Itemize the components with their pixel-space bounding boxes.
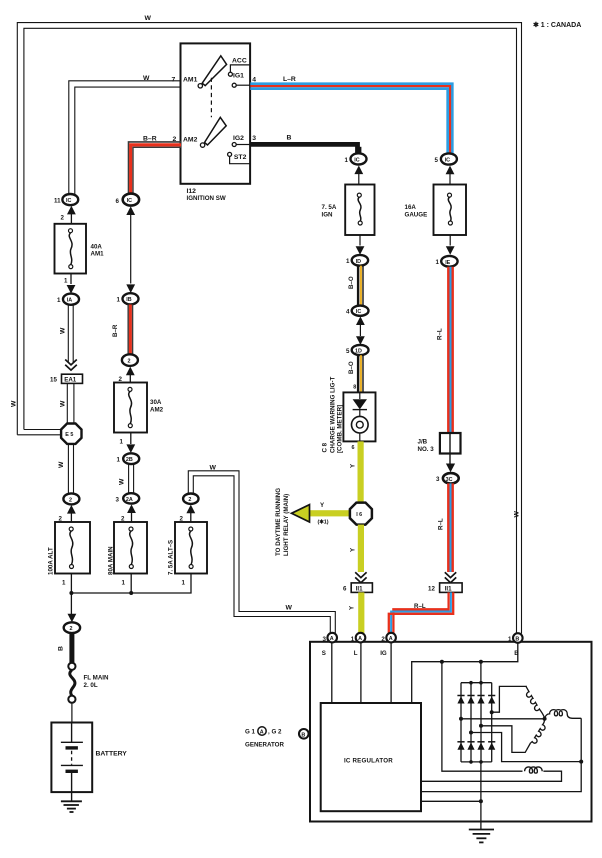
svg-text:1: 1 xyxy=(120,439,124,446)
svg-text:W: W xyxy=(119,478,126,485)
svg-text:W: W xyxy=(58,461,65,468)
generator box xyxy=(310,642,592,822)
svg-text:B–R: B–R xyxy=(143,135,157,142)
svg-text:AM1: AM1 xyxy=(183,76,198,83)
wire rectifier center to ground xyxy=(480,762,482,830)
diode bottom row col3 xyxy=(477,741,484,743)
svg-text:IG: IG xyxy=(380,650,387,657)
connector 5 1D oval xyxy=(352,345,369,355)
rectifier bottom rail xyxy=(461,761,492,763)
battery box xyxy=(51,723,92,793)
svg-text:1: 1 xyxy=(117,457,121,464)
wire B thick from IG2 pin 3 to connector 1 IC xyxy=(250,144,357,153)
svg-text:2: 2 xyxy=(70,626,73,632)
arrow up below 4 IC xyxy=(356,316,365,325)
double chevron into 12 II1 xyxy=(445,572,456,582)
connector 2 oval above 100A ALT xyxy=(63,493,79,504)
svg-text:AM2: AM2 xyxy=(183,137,198,144)
svg-text:GENERATOR: GENERATOR xyxy=(245,742,284,749)
arrow down into 1 IE xyxy=(446,246,455,255)
svg-text:1: 1 xyxy=(436,259,440,266)
svg-text:15: 15 xyxy=(50,377,57,384)
diode top row col2 xyxy=(467,695,474,697)
svg-text:5: 5 xyxy=(346,348,350,355)
svg-text:40A: 40A xyxy=(91,244,103,251)
svg-text:6: 6 xyxy=(116,198,120,205)
connector 1 ID oval xyxy=(352,255,368,266)
svg-text:6: 6 xyxy=(343,586,347,593)
wire rotor coil right end to IC regulator xyxy=(421,771,562,781)
junction connector E5 octagon xyxy=(61,424,81,444)
svg-text:B–O: B–O xyxy=(348,276,355,289)
connector 6 IC oval xyxy=(123,194,139,206)
svg-text:1: 1 xyxy=(508,636,512,643)
stator coil phase 2 xyxy=(531,718,546,743)
svg-text:B: B xyxy=(58,646,65,651)
diode symbol in C8 xyxy=(359,392,361,399)
rectifier column 2 xyxy=(470,683,472,762)
svg-text:30A: 30A xyxy=(150,399,162,406)
svg-text:B: B xyxy=(515,637,519,643)
svg-text:2B: 2B xyxy=(126,457,133,463)
battery cell 2 positive plate xyxy=(61,764,83,766)
terminal 1 A (L) xyxy=(356,633,366,643)
svg-text:BATTERY: BATTERY xyxy=(96,751,128,758)
wire B-R from 1 IB to connector 2 xyxy=(127,305,129,355)
svg-text:L–R: L–R xyxy=(283,76,296,83)
svg-text:TO DAYTIME RUNNING: TO DAYTIME RUNNING xyxy=(275,488,282,556)
svg-text:1: 1 xyxy=(117,297,121,304)
wire stator phase 3 end down to IC regulator sense xyxy=(421,718,581,791)
svg-text:C 8: C 8 xyxy=(322,442,329,452)
svg-text:2: 2 xyxy=(61,215,65,222)
AM2 contact circle xyxy=(200,143,204,147)
connector 1 IC oval IGN feed xyxy=(351,153,367,164)
connector 1 IA oval xyxy=(63,294,79,305)
svg-text:2. 0L: 2. 0L xyxy=(84,682,98,689)
dashed mechanical link between wipers xyxy=(210,78,212,118)
wire B-O from 5 1D to charge warning light xyxy=(357,355,359,392)
svg-text:1D: 1D xyxy=(355,349,362,355)
svg-text:2: 2 xyxy=(128,359,131,365)
wire Y from 6 II1 to generator L terminal xyxy=(358,592,364,633)
rectifier column 4 xyxy=(491,683,493,762)
svg-text:ACC: ACC xyxy=(232,57,247,64)
wire Y from C8 to junction I6 xyxy=(358,441,364,503)
arrow head to daytime running light relay xyxy=(292,505,310,522)
svg-text:4: 4 xyxy=(252,76,256,83)
wire L terminal to IC regulator xyxy=(360,642,362,703)
wire W from E5 down to connector 2 xyxy=(67,444,69,494)
diode top row col3 xyxy=(477,695,484,697)
svg-text:E 5: E 5 xyxy=(65,432,73,438)
svg-text:3: 3 xyxy=(323,636,327,643)
junction block 15 EA1 xyxy=(62,374,83,383)
arrow down into 1 IA xyxy=(67,285,76,294)
junction block 12 II1 xyxy=(440,583,463,593)
fuse 7.5A ALT-S box xyxy=(175,522,207,574)
connector 2 oval above 30A AM2 xyxy=(122,354,138,366)
svg-text:2: 2 xyxy=(188,497,191,503)
svg-text:7: 7 xyxy=(172,76,176,83)
terminal 3 A (S) xyxy=(327,633,337,643)
svg-text:W: W xyxy=(60,327,67,334)
diode bottom row col1 xyxy=(457,741,464,743)
fuse bank junction wire to FL MAIN xyxy=(71,574,191,594)
arrow up into 3 2A xyxy=(127,504,136,513)
svg-text:✱ 1 : CANADA: ✱ 1 : CANADA xyxy=(533,21,581,29)
connector 5 IC oval GAUGE feed xyxy=(441,153,457,164)
svg-text:IGN: IGN xyxy=(322,212,334,219)
svg-text:B–O: B–O xyxy=(348,361,355,374)
svg-text:2: 2 xyxy=(381,636,385,643)
svg-text:IC: IC xyxy=(356,309,361,315)
branch wire Y to daytime running light relay xyxy=(309,510,351,516)
connector 4 IC oval xyxy=(352,306,369,316)
arrow down into 1 2B xyxy=(126,444,135,453)
svg-text:L: L xyxy=(354,650,358,657)
svg-text:1: 1 xyxy=(64,278,68,285)
fuse 30A AM2 box xyxy=(114,383,147,433)
AM1 switch wiper xyxy=(202,56,226,86)
wire R-L from 12 II1 to generator IG terminal xyxy=(393,592,448,633)
junction connector I6 octagon xyxy=(350,503,372,525)
ignition switch I12 box xyxy=(181,43,251,183)
svg-text:B: B xyxy=(287,135,292,142)
svg-text:3: 3 xyxy=(436,476,440,483)
svg-text:A: A xyxy=(260,730,264,736)
svg-text:IG1: IG1 xyxy=(233,73,244,80)
junction box J/B No.3 xyxy=(440,433,461,454)
arrow up into 11 IC xyxy=(67,206,76,215)
svg-text:IGNITION SW: IGNITION SW xyxy=(187,195,226,202)
connector G2 B circle on generator left edge xyxy=(299,729,309,739)
stator coil phase 2 tap from rectifier column 3 xyxy=(481,726,531,753)
junction dot B line to rectifier feed xyxy=(479,660,483,664)
battery cell 1 positive plate xyxy=(61,741,83,743)
svg-text:IC: IC xyxy=(127,198,132,204)
wire W from E5 left to outer loop xyxy=(24,429,62,431)
wire W from ignition switch AM1 pin 7 to connector 11 IC xyxy=(69,81,181,195)
svg-text:CHARGE WARNING LIG-T: CHARGE WARNING LIG-T xyxy=(329,376,336,453)
arrow down into 5 1D xyxy=(356,336,365,345)
wire below J/B No.3 xyxy=(449,454,451,465)
svg-text:11: 11 xyxy=(54,197,61,204)
svg-text:1: 1 xyxy=(62,580,66,587)
wire W from EA1 to E5 xyxy=(66,383,68,424)
svg-text:B–R: B–R xyxy=(112,324,119,337)
svg-text:IG2: IG2 xyxy=(233,135,244,142)
svg-text:IC REGULATOR: IC REGULATOR xyxy=(344,758,393,765)
svg-text:(✱1): (✱1) xyxy=(318,520,329,526)
connector 1 IE oval xyxy=(441,256,457,267)
svg-text:IC: IC xyxy=(354,157,359,163)
wire R-L from 1 IE to J/B No.3 (red-blue-red) xyxy=(447,267,449,433)
battery lead to ground xyxy=(71,773,73,801)
svg-text:A: A xyxy=(389,636,393,642)
AM1 contact circle xyxy=(198,84,202,88)
arrow up into 6 IC xyxy=(126,206,135,215)
svg-text:7. 5A ALT–S: 7. 5A ALT–S xyxy=(168,540,175,575)
arrow down into 1 ID xyxy=(356,246,365,255)
fusible link FL MAIN 2.0L xyxy=(68,663,75,670)
svg-text:IA: IA xyxy=(67,298,72,304)
wire L-R from IG1 pin 4 to connector 5 IC (blue-red-blue) xyxy=(250,84,452,154)
wire rectifier feed vertical xyxy=(480,662,482,683)
phase tap from rectifier column 4 xyxy=(492,686,527,712)
svg-text:B: B xyxy=(301,732,305,738)
arrow up into 1 IC xyxy=(354,166,363,175)
rotor field coil xyxy=(525,767,543,773)
connector 1 2B oval xyxy=(123,453,139,464)
wire W from 1 2B to 3 2A xyxy=(128,464,130,493)
stator neutral junction dot xyxy=(543,717,547,721)
junction dot col B xyxy=(69,591,73,595)
arrow up into connector 2 xyxy=(186,505,195,514)
svg-text:A: A xyxy=(358,636,362,642)
svg-text:12: 12 xyxy=(428,586,435,593)
battery cell 2 negative plate xyxy=(66,770,78,773)
diode top row col1 xyxy=(457,695,464,697)
wire B-O from 1 ID to 4 IC (black-orange) xyxy=(357,266,359,306)
svg-text:[COMB. METER]: [COMB. METER] xyxy=(337,405,344,453)
rectifier column 3 xyxy=(480,683,482,762)
junction dot col C xyxy=(129,591,133,595)
svg-text:A: A xyxy=(330,636,334,642)
svg-text:3C: 3C xyxy=(446,477,453,483)
junction dot ground node xyxy=(479,799,483,803)
wire W from connector 2 above ALT-S to generator S terminal xyxy=(188,471,335,634)
svg-text:IE: IE xyxy=(445,260,450,266)
AM2 switch wiper xyxy=(205,117,227,145)
fuse 7.5A IGN box xyxy=(345,185,374,236)
svg-text:W: W xyxy=(60,400,67,407)
svg-text:7. 5A: 7. 5A xyxy=(322,204,337,211)
IG1 contact circle and stub xyxy=(232,83,236,87)
battery cell 1 negative plate xyxy=(66,746,78,749)
junction dot phase sense xyxy=(579,760,583,764)
svg-text:R–L: R–L xyxy=(414,603,426,610)
wire W outer loop battery feed to generator B terminal xyxy=(17,23,521,634)
diode top row col4 xyxy=(488,695,495,697)
svg-text:W: W xyxy=(514,511,521,518)
ACC contact circle and stub xyxy=(228,72,232,76)
svg-text:IC: IC xyxy=(66,198,71,204)
arrow up into connector 2 xyxy=(67,505,76,514)
fuse 40A AM1 box xyxy=(55,224,87,274)
svg-text:GAUGE: GAUGE xyxy=(405,212,428,219)
svg-text:3: 3 xyxy=(116,496,120,503)
svg-text:S: S xyxy=(322,650,326,657)
junction block 6 II1 xyxy=(351,583,372,593)
fuse 16A GAUGE box xyxy=(434,185,467,236)
svg-text:1: 1 xyxy=(351,636,355,643)
arrow up into 5 IC xyxy=(446,166,455,175)
svg-text:NO. 3: NO. 3 xyxy=(418,446,435,453)
wire to battery xyxy=(71,703,73,723)
arrow down into connector 2 above FL MAIN xyxy=(68,614,77,623)
junction dot B line to rotor feed xyxy=(440,660,444,664)
fuse 80A MAIN box xyxy=(114,522,147,574)
wire R-L from 3 3C to junction block 12 II1 xyxy=(447,483,449,572)
wire below IGN fuse xyxy=(359,235,361,246)
wire IC regulator to ground node xyxy=(421,800,481,802)
wire B-R from AM2 pin 2 to connector 6 IC (black-red) xyxy=(129,142,182,194)
svg-text:IB: IB xyxy=(126,297,131,303)
connector 2 oval above 7.5A ALT-S xyxy=(183,494,198,504)
svg-text:100A ALT: 100A ALT xyxy=(48,547,55,575)
svg-text:ST2: ST2 xyxy=(234,154,247,161)
battery dashed link xyxy=(71,751,73,765)
svg-text:4: 4 xyxy=(346,309,350,316)
svg-text:1: 1 xyxy=(182,580,186,587)
svg-text:1: 1 xyxy=(57,297,61,304)
svg-text:R–L: R–L xyxy=(436,328,443,340)
arrow down into 3 3C xyxy=(446,464,455,473)
diode bottom row col4 xyxy=(488,741,495,743)
ground symbol generator xyxy=(469,829,494,831)
connector 1 IB oval xyxy=(123,293,139,304)
double chevron into EA1 xyxy=(65,360,77,371)
wire W inner loop battery feed to generator B terminal xyxy=(24,28,517,633)
svg-text:II1: II1 xyxy=(356,586,363,593)
stator coil phase 3 horizontal xyxy=(544,710,581,719)
svg-text:AM2: AM2 xyxy=(150,407,164,414)
svg-text:AM1: AM1 xyxy=(91,251,105,258)
connector 3 2A oval xyxy=(123,493,139,503)
svg-text:8: 8 xyxy=(353,385,356,391)
svg-text:1: 1 xyxy=(345,157,349,164)
svg-text:80A MAIN: 80A MAIN xyxy=(108,546,115,575)
IC regulator box xyxy=(321,703,421,811)
wire below GAUGE fuse xyxy=(449,235,451,246)
svg-text:2A: 2A xyxy=(126,497,133,503)
svg-text:J/B: J/B xyxy=(418,439,428,446)
wire B thick to fusible link xyxy=(69,633,74,663)
arrow up into connector 2 xyxy=(126,367,135,376)
double chevron into 6 II1 xyxy=(355,572,366,582)
wire S terminal to IC regulator xyxy=(331,642,333,703)
wire phase tap from rectifier column 2 xyxy=(471,733,581,762)
terminal 2 A (IG) xyxy=(386,633,396,643)
arrow down into 1 IB xyxy=(126,284,135,293)
connector 11 IC oval xyxy=(62,194,78,205)
bulb symbol in C8 xyxy=(352,416,369,433)
wire Y from I6 to junction block 6 II1 xyxy=(358,525,364,572)
diode bottom row col2 xyxy=(467,741,474,743)
svg-text:2: 2 xyxy=(69,497,72,503)
svg-text:3: 3 xyxy=(252,135,256,142)
rectifier top rail xyxy=(461,682,492,684)
charge warning light C8 box xyxy=(343,392,375,441)
svg-text:5: 5 xyxy=(435,157,439,164)
connector 3 3C oval xyxy=(443,473,459,483)
svg-text:LIGHT RELAY (MAIN): LIGHT RELAY (MAIN) xyxy=(283,494,290,556)
svg-text:G 1: G 1 xyxy=(245,729,256,736)
svg-text:W: W xyxy=(210,465,217,472)
svg-text:W: W xyxy=(143,75,150,82)
terminal 1 B xyxy=(513,633,523,643)
wire W from 1 IA to EA1 xyxy=(67,305,69,362)
rectifier column 1 xyxy=(460,683,462,762)
svg-text:W: W xyxy=(286,605,293,612)
svg-text:W: W xyxy=(145,15,152,22)
stator neutral rail from rectifier column 1 xyxy=(461,718,545,720)
svg-text:FL MAIN: FL MAIN xyxy=(84,675,110,682)
svg-text:EA1: EA1 xyxy=(64,377,77,384)
battery internal lead xyxy=(71,723,73,743)
svg-text:ID: ID xyxy=(356,259,361,265)
svg-text:16A: 16A xyxy=(405,204,417,211)
stator coil phase 1 xyxy=(526,686,545,718)
svg-text:, G 2: , G 2 xyxy=(268,729,282,736)
ST2 contact circle and stub xyxy=(228,152,232,156)
ground symbol battery xyxy=(61,800,82,802)
IG2 contact circle and stub xyxy=(232,143,236,147)
wire IG terminal to IC regulator xyxy=(390,642,392,703)
svg-text:I 6: I 6 xyxy=(356,512,362,518)
svg-text:W: W xyxy=(11,400,18,407)
svg-text:1: 1 xyxy=(122,580,126,587)
svg-text:6: 6 xyxy=(352,445,355,451)
svg-text:1: 1 xyxy=(346,258,350,265)
connector 2 oval above FL MAIN xyxy=(64,622,80,633)
fuse 100A ALT box xyxy=(55,522,90,574)
svg-text:IC: IC xyxy=(445,158,450,164)
svg-text:I12: I12 xyxy=(187,188,197,195)
svg-text:II1: II1 xyxy=(445,586,452,593)
wire rotor feed vertical xyxy=(442,662,523,772)
svg-text:R–L: R–L xyxy=(437,518,444,530)
wire B terminal into generator xyxy=(412,643,518,703)
